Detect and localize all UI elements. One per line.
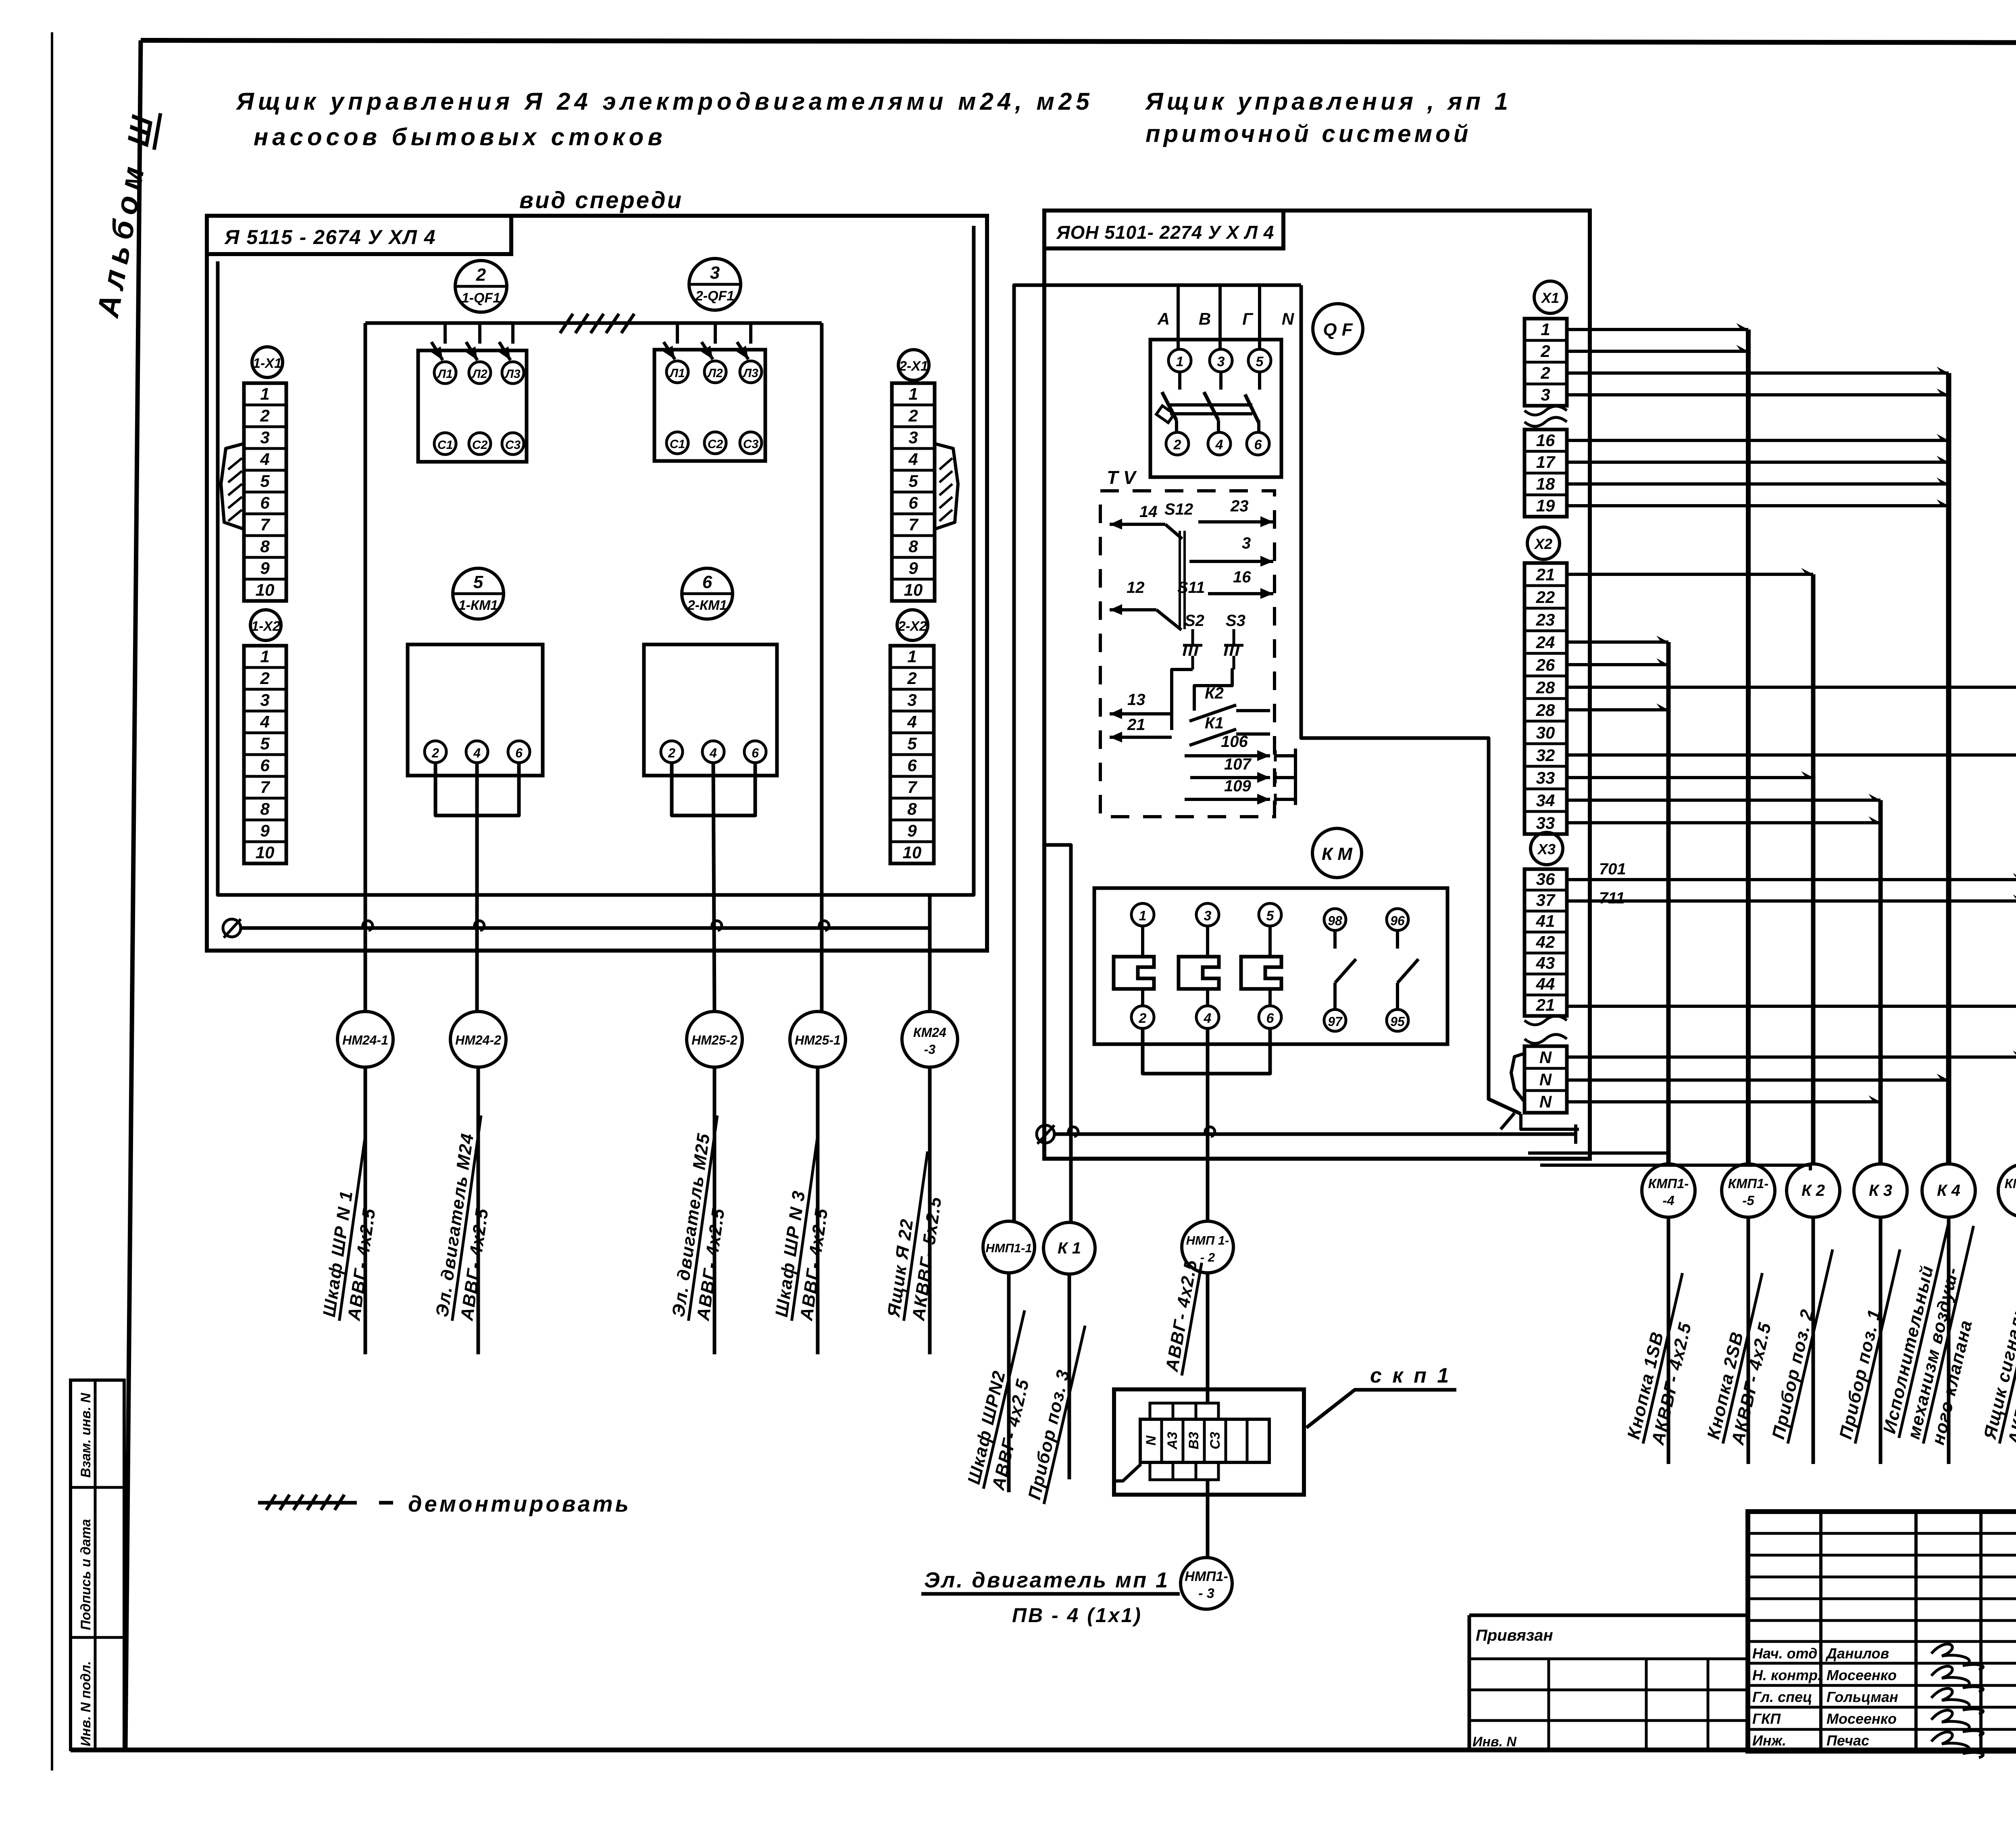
contactor KM label circle [1312,828,1362,878]
svg-text:N: N [1143,1435,1159,1445]
svg-text:S2: S2 [1185,612,1204,630]
shield bracket under N block [1521,1114,1579,1129]
svg-text:Данилов: Данилов [1825,1645,1889,1662]
svg-text:Инж.: Инж. [1752,1732,1786,1749]
svg-text:1-X2: 1-X2 [251,619,280,634]
breaker pole blades [1162,392,1177,420]
wire NMP1-2 to SKP1 [1206,1272,1210,1404]
svg-text:2: 2 [260,406,269,425]
svg-text:22: 22 [1536,588,1555,607]
cable circle NM24-1 [337,1011,393,1067]
svg-text:КМП1-: КМП1- [1728,1176,1769,1191]
svg-text:А3: А3 [1165,1432,1180,1450]
svg-text:Л2: Л2 [707,367,723,380]
wire below cable circle x=1772 [713,1066,716,1354]
switch S12 with terminal 14 and 23 [1110,497,1273,629]
svg-text:7: 7 [260,778,270,797]
svg-text:33: 33 [1536,768,1555,787]
cable circle K2 [1787,1164,1840,1217]
svg-text:3: 3 [1541,385,1550,404]
cable trunk KMP1-4 [1666,642,1671,1165]
svg-text:3: 3 [907,690,916,709]
cable circle KMP1-5 [1722,1164,1775,1217]
svg-text:6: 6 [1266,1011,1275,1026]
svg-text:НМП1-1: НМП1-1 [985,1241,1032,1255]
svg-text:2-QF1: 2-QF1 [695,288,734,304]
svg-text:Нач. отд: Нач. отд [1752,1645,1817,1662]
cable circle KMP1-4 [1642,1164,1695,1217]
svg-text:S3: S3 [1226,612,1245,630]
svg-text:4: 4 [709,746,717,760]
svg-text:13: 13 [1127,691,1145,709]
svg-text:S12: S12 [1164,501,1193,518]
svg-text:6: 6 [908,493,918,512]
svg-text:К М: К М [1322,844,1353,864]
svg-text:37: 37 [1536,891,1556,909]
position circle 6 / contactor 2-KM1 [682,568,733,619]
wire X1:2 to K4 [1567,367,1949,373]
svg-text:Н. контр.: Н. контр. [1752,1667,1822,1683]
wire below cable circle x=4833 [1947,1217,1951,1464]
junction hook [712,921,722,930]
svg-text:7: 7 [260,515,270,534]
svg-text:- 2: - 2 [1200,1250,1215,1264]
svg-text:Л3: Л3 [742,367,758,380]
svg-text:3: 3 [710,263,720,283]
tear mark [1524,406,1567,415]
cable label NMP1-1: Shkaf ShRN2 [963,1306,1048,1494]
svg-text:А: А [1157,309,1170,328]
svg-text:X3: X3 [1537,841,1556,857]
wire X2:32 to K5 [1567,749,2016,755]
wire X1:2 to KMP1-5 [1567,345,1748,351]
wire N conductor path to N terminals [1301,285,1521,1114]
svg-text:16: 16 [1536,431,1555,450]
svg-text:109: 109 [1224,777,1251,795]
wire X2:33 to K3 [1567,816,1881,823]
wire SKP1 to NMP1-3 [1206,1480,1210,1558]
svg-text:5: 5 [260,734,270,753]
svg-text:Л1: Л1 [437,367,452,381]
svg-text:S11: S11 [1177,579,1205,596]
cable circle NM25-2 [687,1011,742,1067]
svg-text:8: 8 [907,799,917,818]
svg-text:2: 2 [908,406,918,425]
svg-text:1-КМ1: 1-КМ1 [458,598,498,613]
svg-text:21: 21 [1536,995,1555,1014]
svg-text:41: 41 [1536,911,1555,930]
frame left border [125,40,141,1750]
junction hook [819,921,829,930]
cable circle K1 [1043,1222,1095,1274]
svg-text:ГКП: ГКП [1752,1710,1781,1727]
wire X2:28 to KMP1-4 [1567,703,1668,710]
cable circle K3 [1854,1164,1907,1217]
svg-text:6: 6 [907,756,917,775]
svg-text:насосов бытовых стоков: насосов бытовых стоков [254,123,666,150]
svg-text:106: 106 [1221,733,1248,751]
ground/shield line of YaP1 with phi symbol [1037,1124,1576,1144]
svg-text:23: 23 [1230,497,1249,515]
svg-text:N: N [1539,1070,1552,1089]
svg-text:Гл. спец: Гл. спец [1752,1689,1812,1705]
svg-text:3: 3 [1242,534,1251,552]
terminal strip 1-X1 [244,383,286,601]
svg-text:17: 17 [1536,453,1556,471]
wire X1:3 to K4 [1567,388,1949,395]
svg-text:- 3: - 3 [1198,1586,1214,1601]
contactor block 1-KM1 [408,644,543,776]
svg-text:ЯОН 5101- 2274 У Х Л 4: ЯОН 5101- 2274 У Х Л 4 [1056,222,1274,243]
wire X3:21 to K5 [1567,1000,2016,1006]
wire below K1 [1068,1274,1071,1479]
svg-text:33: 33 [1536,813,1555,832]
svg-text:ПВ - 4 (1х1): ПВ - 4 (1х1) [1012,1604,1142,1627]
terminal strip X3 [1524,869,1567,1016]
svg-text:10: 10 [904,580,923,599]
svg-text:5: 5 [1266,908,1275,924]
svg-text:-5: -5 [1742,1193,1754,1208]
wire shield to K2 [1540,1165,1810,1170]
svg-text:1: 1 [1541,320,1550,339]
svg-text:КМП1-: КМП1- [1648,1176,1689,1191]
svg-text:9: 9 [260,559,270,578]
svg-text:28: 28 [1536,701,1555,720]
breaker block 2-QF1 [654,350,765,461]
svg-text:34: 34 [1536,791,1555,810]
terminal block 2-X2 label circle [897,610,928,640]
svg-text:К 3: К 3 [1869,1182,1892,1199]
tear mark [1524,1016,1567,1025]
wire feeder from NMP1-1 into YaP1 [1014,285,1301,1222]
svg-text:К 2: К 2 [1801,1182,1825,1199]
svg-text:5: 5 [908,471,918,490]
privyazan extension table [1469,1615,1748,1750]
svg-text:6: 6 [1254,437,1262,453]
svg-text:21: 21 [1127,716,1145,734]
title block (stamp) [1748,1512,2016,1751]
svg-text:К 4: К 4 [1937,1182,1960,1199]
label El.dvigatel MP1 PV-4(1x1) [921,1568,1180,1627]
wire feeder bus across Ya24 [365,321,822,325]
svg-text:2: 2 [907,669,916,688]
wire jumper 2-KM1 terminals 2-6 [672,763,755,815]
wire below cable circle x=2028 [816,1066,820,1354]
wire jumper 1-KM1 terminals 2-6 [435,763,519,815]
svg-text:98: 98 [1328,913,1342,928]
svg-text:4: 4 [1215,437,1223,453]
cable label KMP1-5: Knopka 2SB [1703,1268,1786,1449]
cable trunk KMP1-5 [1746,330,1751,1165]
tear mark [1524,417,1567,426]
relay contact K2 with terminal 13 [1110,684,1270,721]
svg-text:1: 1 [1176,354,1184,369]
svg-text:24: 24 [1536,633,1555,652]
svg-text:Мосеенко: Мосеенко [1826,1710,1897,1727]
cable label NMP1-2: AVVG-4x2.5 [1162,1258,1202,1376]
svg-text:4: 4 [908,450,918,469]
terminal block X1 label circle [1534,281,1566,313]
contactor block KM [1094,888,1447,1044]
cable label KM24-3: Yashchik Ya22 [883,1149,952,1324]
connector bracket at N block [1511,1053,1524,1102]
cable circle NMP1-2 [1182,1221,1233,1273]
position circle 5 / contactor 1-KM1 [453,568,504,619]
svg-text:2-X2: 2-X2 [898,619,927,634]
svg-text:Печас: Печас [1826,1732,1869,1749]
svg-text:Т V: Т V [1107,467,1137,488]
wire N to K3 [1567,1095,1881,1102]
svg-text:6: 6 [260,756,270,775]
ground/shield line of Ya24 with phi symbol [223,919,930,938]
svg-text:9: 9 [260,821,270,840]
switch S11 with terminal 12 [1110,579,1205,630]
svg-text:4: 4 [260,450,269,469]
wire X1:17 to K4 [1567,456,1949,462]
terminal block X2 label circle [1527,527,1560,559]
svg-text:7: 7 [908,515,918,534]
demount hatch marks on bus [560,314,573,333]
cable circle NMP1-1 [983,1221,1035,1273]
wire phase B tap [1218,285,1222,349]
svg-text:С3: С3 [743,438,759,451]
wire N to K4 [1567,1074,1949,1080]
svg-text:32: 32 [1536,746,1555,765]
wire shield to KMP1-4 [1528,1151,1668,1155]
cable trunk K4 [1946,373,1951,1165]
svg-text:К2: К2 [1205,684,1224,702]
wire X2:28 to K5 [1567,681,2016,687]
cable label K3: Pribor poz.1 [1835,1245,1900,1443]
terminal block X3 label circle [1531,832,1563,865]
svg-text:Инв. N подл.: Инв. N подл. [78,1661,94,1746]
svg-text:НМ25-2: НМ25-2 [691,1033,737,1047]
terminal strip X1 upper part [1524,319,1567,406]
svg-text:36: 36 [1536,870,1555,888]
svg-text:КМП1-: КМП1- [2005,1176,2016,1191]
svg-text:3: 3 [1217,354,1225,369]
svg-text:7: 7 [907,778,917,797]
svg-text:9: 9 [907,821,917,840]
svg-text:Ящик управления Я 24 элек: Ящик управления Я 24 электродвигателями … [235,88,1093,115]
wire drop NM24-2 [475,763,479,1013]
svg-text:2: 2 [260,669,269,688]
svg-text:Л3: Л3 [504,367,521,381]
svg-text:В: В [1199,309,1211,328]
svg-text:1: 1 [907,647,916,666]
cabinet YaP1 outer box [1044,211,1590,1159]
cable circle NM24-2 [450,1011,506,1067]
position circle 3 / breaker 2-QF1 [689,259,741,310]
svg-text:4: 4 [907,712,916,731]
svg-text:3: 3 [260,428,269,447]
svg-text:26: 26 [1536,655,1555,674]
svg-text:1: 1 [260,384,269,403]
wire drop NMP1-2 from KM terminal 4 [1206,1028,1210,1222]
cabinet Ya24 label box [207,216,511,254]
svg-text:6: 6 [515,746,523,760]
svg-text:КМ24: КМ24 [913,1025,946,1040]
cable circle NM25-1 [790,1011,846,1067]
svg-text:2: 2 [476,265,486,285]
wire phase C tap [1258,285,1261,349]
wire below cable circle x=4138 [1667,1217,1670,1464]
frame top border [141,40,2016,43]
svg-text:С1: С1 [670,438,685,451]
svg-text:2: 2 [1173,437,1181,453]
svg-text:Гольцман: Гольцман [1826,1689,1898,1705]
control unit TV dashed box [1100,491,1275,817]
cable trunk K3 [1879,800,1883,1165]
svg-text:приточной системой: приточной системой [1145,120,1471,147]
svg-text:Инв. N: Инв. N [1472,1734,1517,1750]
svg-text:107: 107 [1224,755,1252,773]
wire below NMP1-1 [1007,1272,1011,1492]
breaker block QF [1150,340,1281,477]
svg-text:С3: С3 [1208,1432,1223,1449]
position circle 2 / breaker 1-QF1 [455,261,507,312]
svg-text:96: 96 [1390,913,1405,928]
svg-text:N: N [1539,1092,1552,1111]
svg-text:6: 6 [260,493,270,512]
cable label NM25-1: Shkaf ShRN3 [771,1132,841,1324]
wire phase A tap [1177,285,1180,349]
svg-text:Привязан: Привязан [1476,1627,1553,1644]
svg-text:21: 21 [1536,565,1555,584]
svg-text:18: 18 [1536,474,1555,493]
svg-text:2: 2 [1540,363,1550,382]
svg-text:Ящик управления , яп 1: Ящик управления , яп 1 [1145,88,1512,115]
svg-text:демонтировать: демонтировать [408,1491,631,1516]
wire drop K1 [1045,845,1071,1223]
cable trunk K2 [1811,574,1816,1165]
svg-text:4: 4 [473,746,481,760]
svg-text:К1: К1 [1205,714,1224,732]
cable circle KM24-3 [902,1011,958,1067]
terminal strip 1-X2 [244,646,286,863]
svg-text:НМ25-1: НМ25-1 [795,1033,841,1047]
svg-text:9: 9 [908,559,918,578]
svg-text:28: 28 [1536,678,1555,697]
label SKP1 with leader [1306,1364,1456,1428]
svg-text:5: 5 [1256,354,1264,369]
svg-text:К 1: К 1 [1058,1239,1081,1257]
svg-text:2: 2 [1540,342,1550,361]
svg-text:Подпись и дата: Подпись и дата [78,1519,94,1630]
wire jumper KM 2-6 [1143,1028,1270,1074]
cable label NM24-2: El.dvigatel M24 [432,1113,505,1324]
terminal strip N [1524,1046,1567,1113]
svg-text:42: 42 [1536,932,1555,951]
contactor block 2-KM1 [644,644,777,776]
terminal strip X1 lower part [1524,430,1567,517]
svg-text:16: 16 [1233,568,1251,586]
svg-text:10: 10 [256,580,275,599]
cable label NM24-1: Shkaf ShRN1 AVVG-4x2.5 [319,1132,389,1324]
svg-text:97: 97 [1328,1014,1343,1029]
junction hook [363,921,373,930]
connector bracket at 1-X1 [221,444,244,529]
frame bottom border [71,1748,2016,1752]
svg-text:Эл. двигатель мп 1: Эл. двигатель мп 1 [924,1568,1169,1592]
svg-text:X2: X2 [1534,536,1552,552]
svg-text:6: 6 [702,572,712,592]
cable circle KMP1-6 [1998,1164,2016,1217]
wire drop NM24-1 [364,323,367,1013]
svg-text:8: 8 [908,537,918,556]
wire below cable circle x=1186 [477,1066,480,1354]
wire N to KMP1-6 [1567,1051,2016,1057]
svg-text:N: N [1282,309,1295,328]
svg-text:2: 2 [668,746,675,760]
cable label K1: Pribor poz.3 [1024,1321,1085,1504]
terminal strip X2 [1524,563,1567,834]
svg-text:вид спереди: вид спереди [519,187,683,213]
cable label KMP1-4: Knopka 1SB [1623,1268,1706,1449]
svg-text:1: 1 [908,384,918,403]
svg-text:НМ24-2: НМ24-2 [455,1033,501,1047]
wire X2:24 to KMP1-4 [1567,636,1668,642]
relay contact K1 with terminal 21 [1110,714,1270,745]
outputs 106 107 109 [1185,733,1295,805]
cabinet YaP1 label box [1044,211,1283,248]
svg-text:С2: С2 [708,438,723,451]
wire X3:37 (711) to KMP1-6 [1567,895,2016,901]
Album III vertical label [91,107,161,321]
svg-text:2: 2 [1139,1011,1147,1026]
terminal block 2-X1 label circle [898,350,929,380]
bus taps with arrows into 2-QF1 [676,323,679,344]
cable label NM25-2: El.dvigatel M25 [668,1113,741,1324]
wire from N block to ground bracket [1501,1113,1514,1129]
wire X2:21 to K2 [1567,568,1813,574]
junction hook [1068,1127,1078,1137]
svg-text:Мосеенко: Мосеенко [1826,1667,1897,1683]
switches S2 and S3 [1172,612,1245,730]
legend: demount symbol [258,1491,631,1516]
svg-text:10: 10 [256,843,275,862]
cable label K2: Pribor poz.2 [1768,1245,1833,1443]
svg-text:12: 12 [1127,579,1145,596]
svg-text:НМ24-1: НМ24-1 [342,1033,388,1047]
sheet edge thin left line [51,32,53,1771]
svg-text:14: 14 [1139,503,1158,521]
svg-text:4: 4 [1204,1011,1212,1026]
svg-text:23: 23 [1536,610,1555,629]
sidebar stamp column (Vzam.inv.N / Podpis i data / Inv.N podl.) [71,1380,124,1750]
terminal strip 2-X1 [892,383,935,601]
svg-text:Взам. инв. N: Взам. инв. N [78,1392,94,1478]
wire X2:34 to K3 [1567,794,1881,800]
cabinet Ya24 outer box [207,216,987,951]
svg-text:Q F: Q F [1323,320,1353,340]
tear mark [1524,1034,1567,1043]
svg-text:С3: С3 [505,438,521,452]
svg-text:-4: -4 [1662,1193,1674,1208]
svg-text:1: 1 [1139,908,1147,924]
terminal block 1-X1 label circle [252,347,283,377]
svg-text:6: 6 [752,746,759,760]
wire X1:16 to K4 [1567,434,1949,440]
svg-text:1-X1: 1-X1 [253,356,282,371]
svg-text:2: 2 [431,746,439,760]
wire drop NM25-1 [820,323,824,1013]
svg-text:5: 5 [907,734,917,753]
wire X3:36 (701) to KMP1-6 [1567,873,2016,880]
svg-text:711: 711 [1599,889,1625,907]
svg-text:5: 5 [260,471,270,490]
box SKP1 [1114,1389,1304,1495]
